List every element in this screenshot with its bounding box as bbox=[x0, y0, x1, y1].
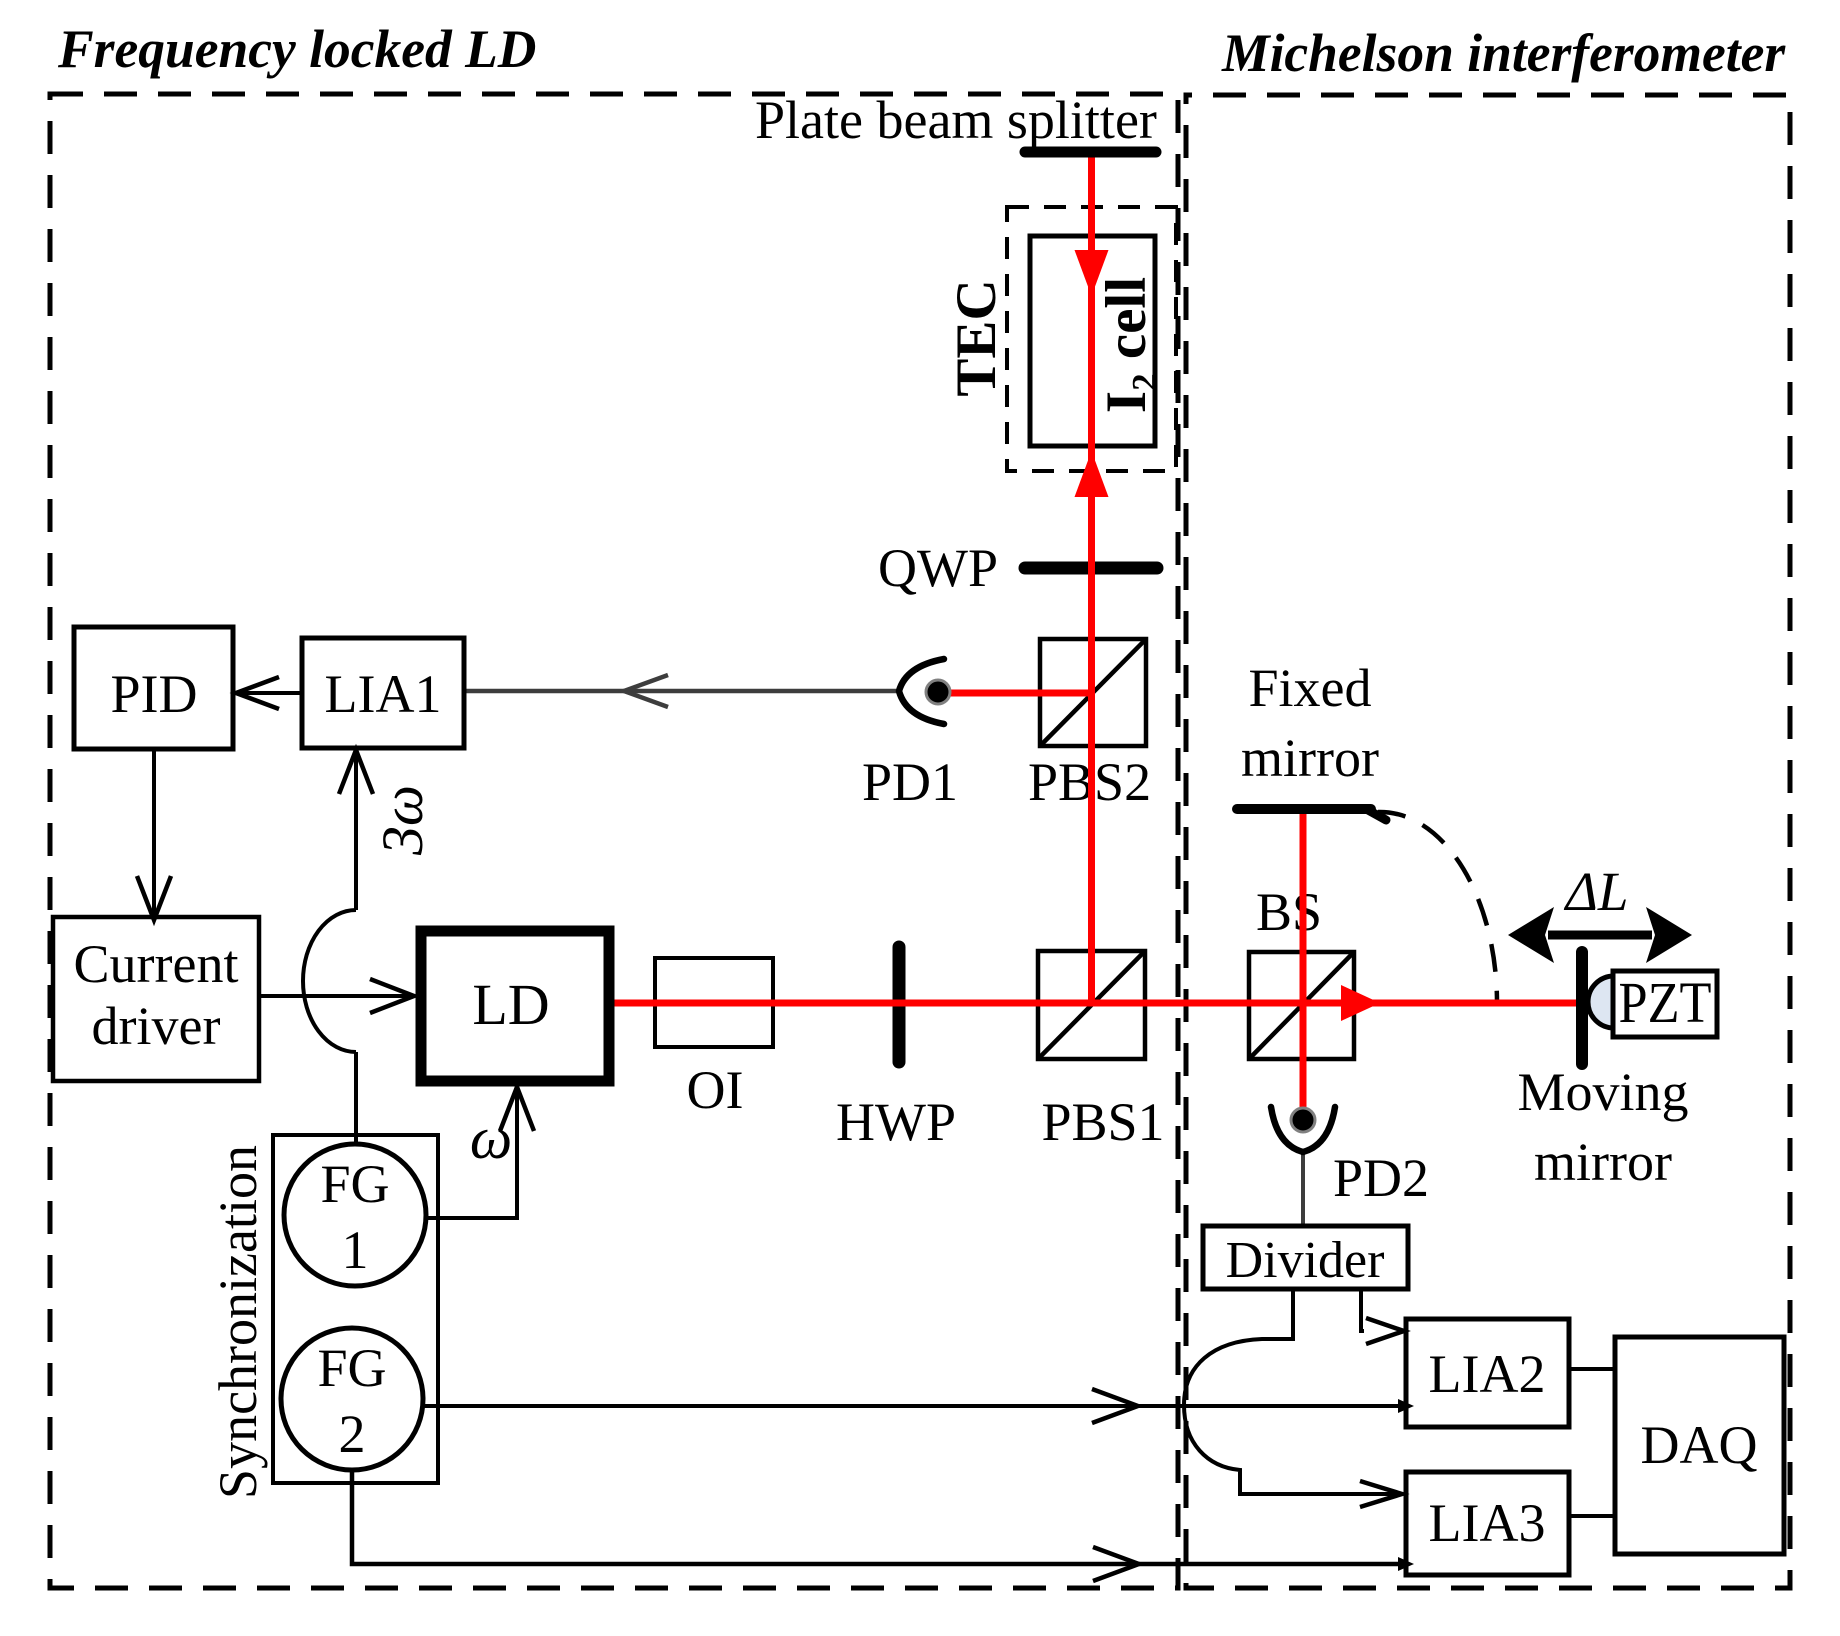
svg-text:PID: PID bbox=[110, 664, 197, 724]
svg-text:PD1: PD1 bbox=[862, 752, 958, 812]
svg-text:PZT: PZT bbox=[1619, 970, 1712, 1035]
svg-text:PBS1: PBS1 bbox=[1041, 1092, 1164, 1152]
svg-text:I2 cell: I2 cell bbox=[1095, 277, 1164, 413]
svg-text:Frequency locked LD: Frequency locked LD bbox=[57, 19, 536, 79]
svg-text:mirror: mirror bbox=[1534, 1132, 1672, 1192]
svg-text:DAQ: DAQ bbox=[1641, 1415, 1758, 1475]
svg-text:3ω: 3ω bbox=[370, 785, 435, 856]
svg-text:QWP: QWP bbox=[878, 538, 998, 598]
svg-text:Divider: Divider bbox=[1226, 1232, 1385, 1289]
svg-text:Moving: Moving bbox=[1517, 1062, 1688, 1122]
svg-text:LIA3: LIA3 bbox=[1429, 1493, 1546, 1553]
svg-text:ΔL: ΔL bbox=[1564, 861, 1629, 922]
svg-text:LD: LD bbox=[472, 972, 549, 1037]
svg-text:FG: FG bbox=[317, 1338, 386, 1398]
svg-text:ω: ω bbox=[470, 1105, 512, 1171]
svg-text:2: 2 bbox=[339, 1404, 366, 1464]
svg-text:Synchronization: Synchronization bbox=[208, 1145, 268, 1499]
svg-text:PD2: PD2 bbox=[1333, 1148, 1429, 1208]
svg-text:HWP: HWP bbox=[836, 1092, 956, 1152]
svg-text:Plate beam splitter: Plate beam splitter bbox=[755, 90, 1157, 150]
svg-text:OI: OI bbox=[687, 1060, 744, 1120]
svg-text:LIA2: LIA2 bbox=[1429, 1344, 1546, 1404]
svg-text:1: 1 bbox=[342, 1220, 369, 1280]
svg-text:Fixed: Fixed bbox=[1248, 658, 1371, 718]
svg-text:LIA1: LIA1 bbox=[325, 664, 442, 724]
svg-text:Current: Current bbox=[74, 934, 239, 994]
svg-text:FG: FG bbox=[320, 1154, 389, 1214]
svg-text:BS: BS bbox=[1256, 882, 1322, 942]
svg-text:mirror: mirror bbox=[1241, 728, 1379, 788]
svg-text:Michelson interferometer: Michelson interferometer bbox=[1221, 23, 1786, 83]
svg-text:TEC: TEC bbox=[945, 279, 1008, 396]
svg-text:driver: driver bbox=[92, 996, 221, 1056]
